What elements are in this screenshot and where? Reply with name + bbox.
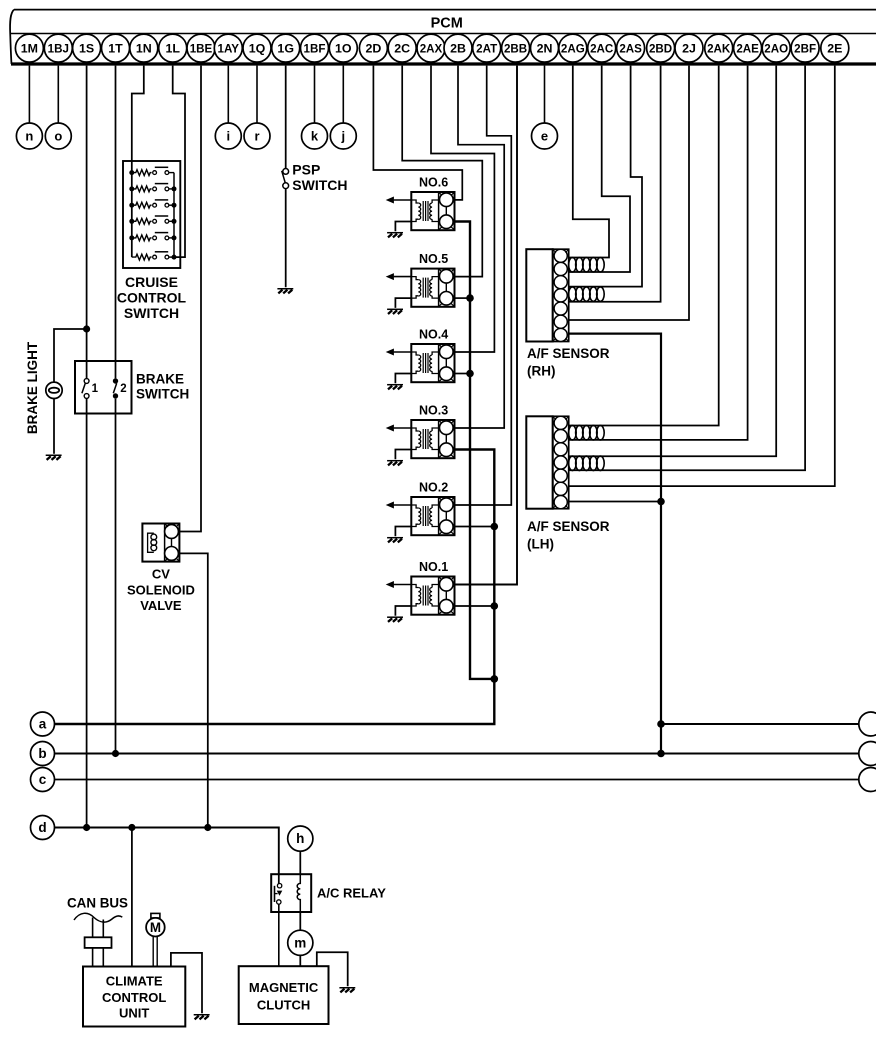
svg-text:2AC: 2AC — [590, 42, 614, 55]
svg-text:SWITCH: SWITCH — [124, 305, 179, 321]
svg-text:SWITCH: SWITCH — [292, 177, 347, 193]
svg-text:1O: 1O — [335, 41, 352, 55]
svg-text:2AT: 2AT — [476, 42, 497, 55]
svg-text:VALVE: VALVE — [140, 598, 182, 613]
svg-text:A/F SENSOR: A/F SENSOR — [527, 346, 610, 361]
svg-text:1: 1 — [92, 383, 99, 395]
svg-text:1N: 1N — [136, 41, 152, 55]
svg-text:b: b — [38, 746, 46, 761]
svg-text:2AG: 2AG — [561, 42, 585, 55]
svg-text:2C: 2C — [394, 41, 410, 55]
svg-text:2BD: 2BD — [649, 42, 672, 55]
svg-text:1BF: 1BF — [304, 42, 326, 55]
svg-text:CRUISE: CRUISE — [125, 274, 178, 290]
svg-text:NO.3: NO.3 — [419, 404, 448, 418]
svg-text:1AY: 1AY — [218, 42, 240, 55]
svg-text:NO.4: NO.4 — [419, 328, 448, 342]
svg-text:2BF: 2BF — [794, 42, 816, 55]
svg-text:PCM: PCM — [431, 16, 463, 32]
svg-text:NO.6: NO.6 — [419, 176, 448, 190]
svg-text:CONTROL: CONTROL — [102, 990, 166, 1005]
svg-text:1Q: 1Q — [249, 41, 266, 55]
svg-text:n: n — [25, 129, 33, 144]
svg-text:PSP: PSP — [292, 161, 320, 177]
svg-text:2AX: 2AX — [420, 42, 443, 55]
svg-text:c: c — [39, 772, 47, 787]
svg-text:CONTROL: CONTROL — [117, 290, 187, 306]
svg-text:2J: 2J — [682, 41, 696, 55]
svg-text:2AE: 2AE — [736, 42, 759, 55]
svg-text:2AS: 2AS — [619, 42, 642, 55]
svg-text:2N: 2N — [537, 41, 553, 55]
svg-text:m: m — [294, 935, 306, 950]
svg-text:NO.1: NO.1 — [419, 560, 448, 574]
svg-text:CLUTCH: CLUTCH — [257, 998, 310, 1013]
svg-text:(LH): (LH) — [527, 537, 554, 552]
svg-text:BRAKE: BRAKE — [136, 372, 184, 387]
svg-text:h: h — [296, 831, 304, 846]
svg-text:CV: CV — [152, 567, 170, 582]
svg-text:M: M — [150, 920, 161, 935]
svg-text:CAN BUS: CAN BUS — [67, 896, 128, 911]
svg-text:1BJ: 1BJ — [48, 42, 69, 55]
svg-text:SOLENOID: SOLENOID — [127, 583, 195, 598]
svg-text:o: o — [54, 129, 62, 144]
svg-text:r: r — [254, 129, 259, 144]
svg-text:A/F SENSOR: A/F SENSOR — [527, 519, 610, 534]
svg-text:k: k — [311, 129, 319, 144]
svg-text:2B: 2B — [450, 41, 466, 55]
svg-text:2D: 2D — [365, 41, 381, 55]
svg-text:BRAKE LIGHT: BRAKE LIGHT — [25, 341, 40, 434]
svg-text:2BB: 2BB — [504, 42, 527, 55]
svg-text:1L: 1L — [165, 41, 180, 55]
svg-text:2: 2 — [120, 383, 126, 395]
svg-text:2AK: 2AK — [707, 42, 731, 55]
svg-text:1M: 1M — [21, 41, 38, 55]
svg-text:1G: 1G — [277, 41, 294, 55]
svg-text:SWITCH: SWITCH — [136, 387, 189, 402]
svg-text:e: e — [541, 129, 548, 144]
svg-text:NO.5: NO.5 — [419, 252, 448, 266]
svg-text:d: d — [38, 820, 46, 835]
svg-text:j: j — [340, 129, 345, 144]
svg-text:MAGNETIC: MAGNETIC — [249, 980, 319, 995]
svg-text:2AO: 2AO — [764, 42, 788, 55]
svg-text:NO.2: NO.2 — [419, 481, 448, 495]
svg-text:UNIT: UNIT — [119, 1006, 149, 1021]
svg-text:(RH): (RH) — [527, 364, 556, 379]
svg-text:i: i — [226, 129, 230, 144]
svg-text:1S: 1S — [79, 41, 94, 55]
svg-text:a: a — [39, 717, 47, 732]
svg-text:1T: 1T — [108, 41, 123, 55]
svg-text:A/C RELAY: A/C RELAY — [317, 886, 386, 901]
svg-text:2E: 2E — [827, 41, 842, 55]
svg-text:1BE: 1BE — [190, 42, 213, 55]
svg-text:CLIMATE: CLIMATE — [106, 974, 163, 989]
